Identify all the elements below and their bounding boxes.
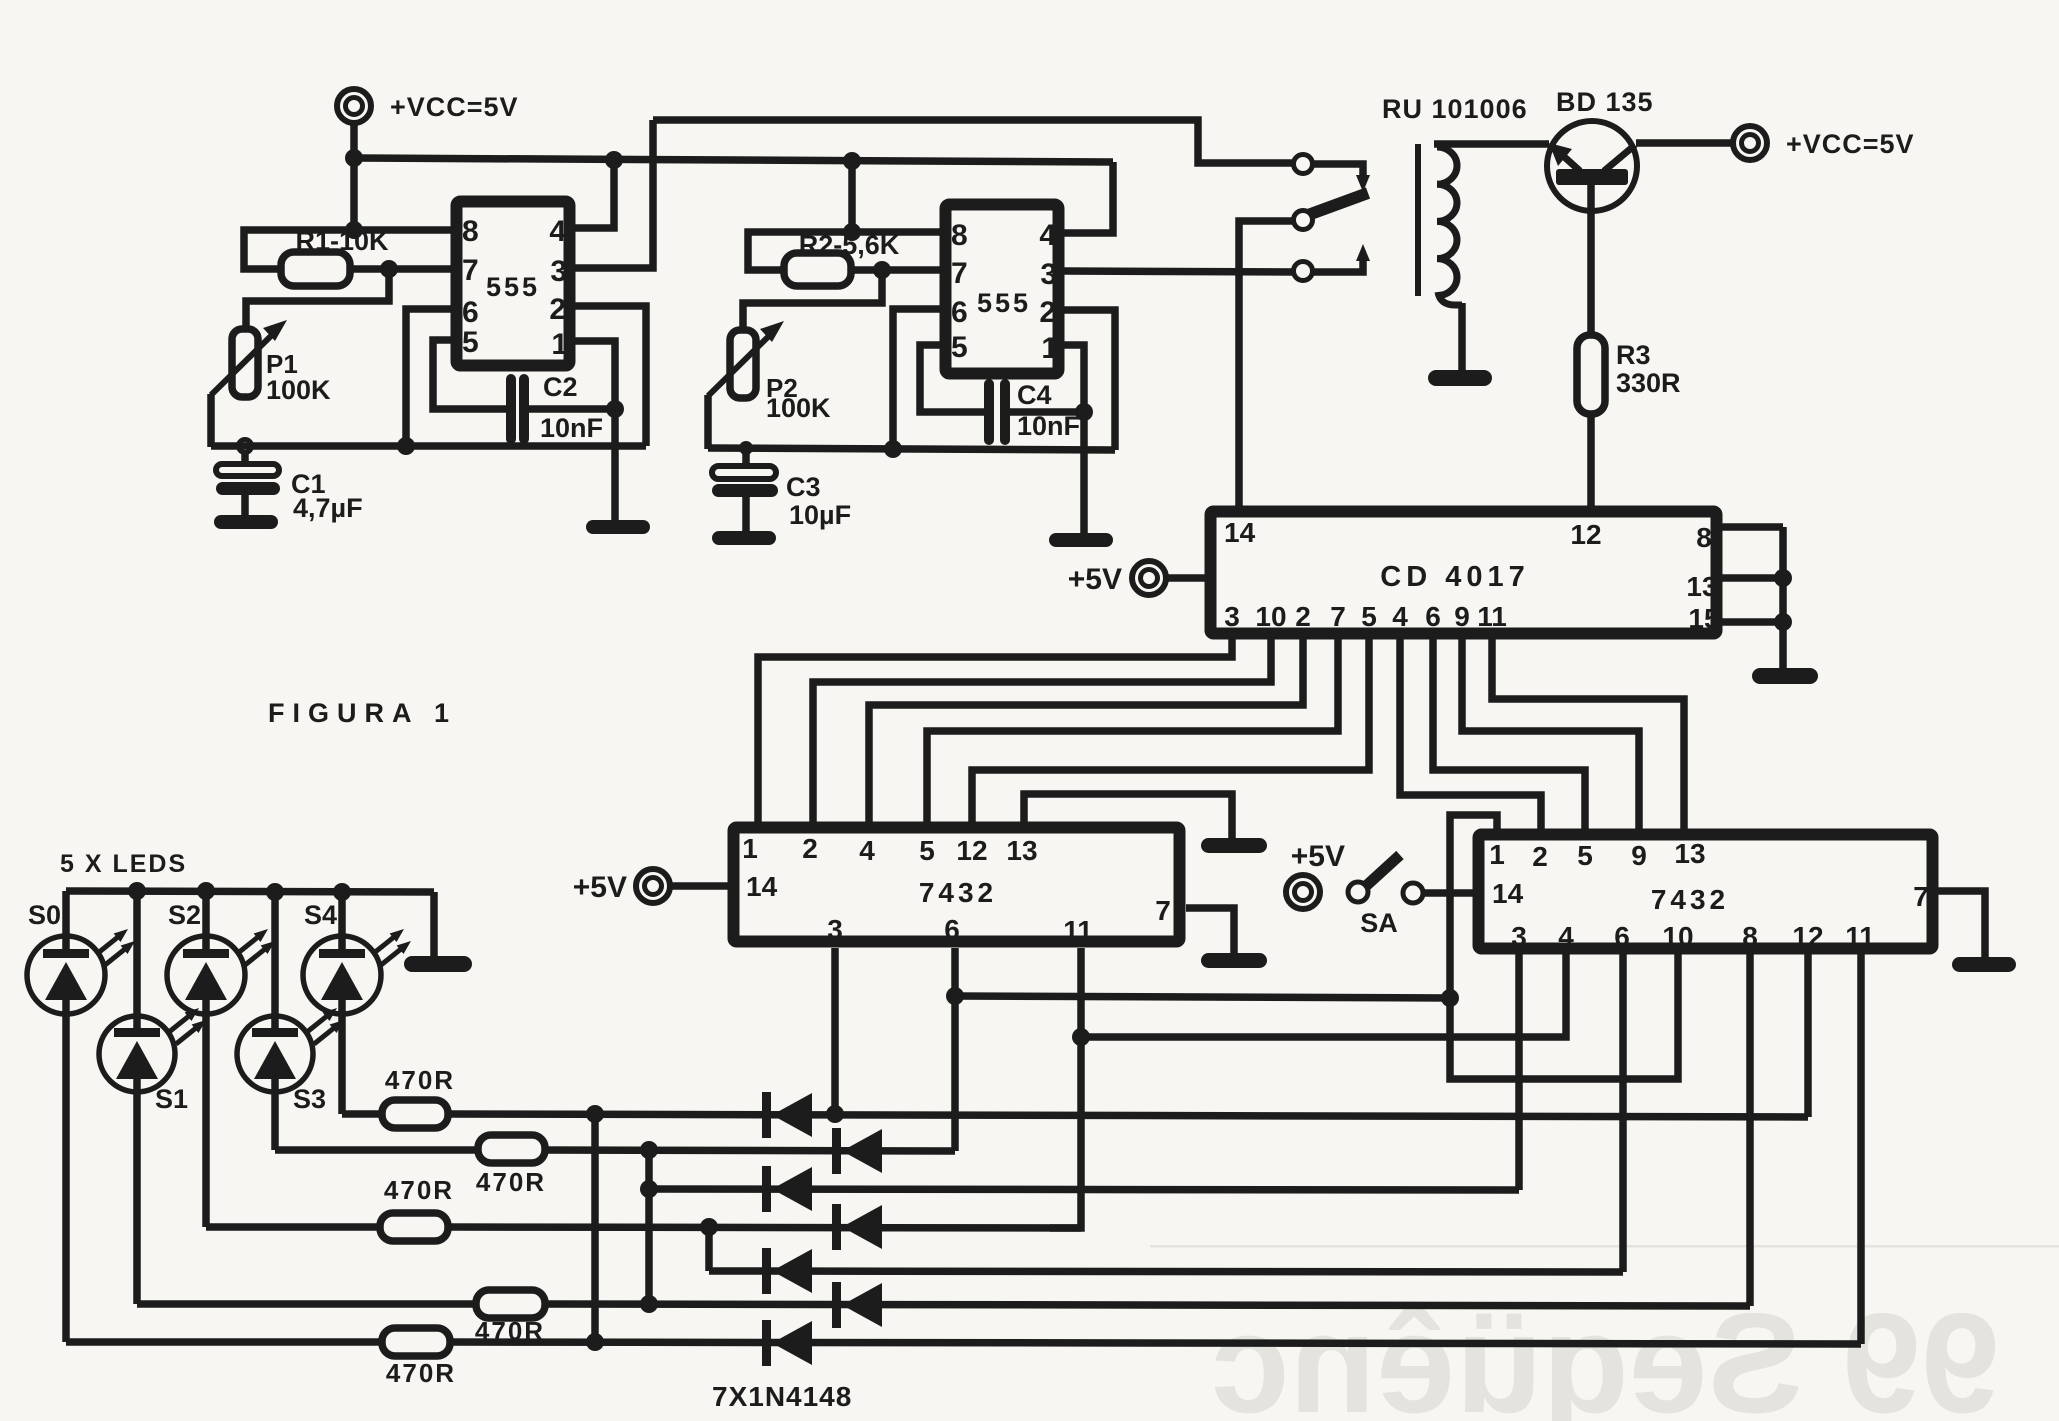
LED S4: [303, 900, 411, 1014]
svg-text:470R: 470R: [385, 1065, 455, 1095]
node: C2/pin1 junction: [606, 400, 624, 418]
wire CD4017 pin15: [1722, 618, 1783, 626]
wire S3 top: [271, 892, 279, 1030]
svg-text:10: 10: [1255, 601, 1286, 632]
wire row B: [545, 1150, 955, 1151]
node: rail to IC1 pin4: [605, 151, 623, 169]
wire 7432a pin6 down: [951, 948, 959, 1151]
svg-text:+VCC=5V: +VCC=5V: [390, 92, 519, 122]
svg-text:1: 1: [1041, 332, 1058, 365]
svg-text:555: 555: [977, 288, 1031, 318]
relay RU 101006 label: [1382, 94, 1528, 124]
wire VCC rail: [354, 158, 1113, 162]
node: P2/C3 junction: [739, 441, 753, 455]
wire LED cathode bus: [66, 891, 434, 892]
svg-text:8: 8: [1696, 522, 1712, 553]
wire row S1: [137, 1300, 476, 1308]
node: rowC/vert649: [640, 1180, 658, 1198]
wire CD4017 pin4 to 7432b pin2: [1400, 639, 1541, 830]
wire row G: [450, 1342, 1861, 1344]
svg-text:6: 6: [1614, 921, 1630, 952]
wire IC2 pin3 output: [1064, 271, 1294, 272]
wire pin5 loop: [433, 340, 506, 409]
svg-text:100K: 100K: [266, 375, 331, 405]
wire pin6 vertical: [406, 309, 451, 446]
node: IC2 pin8 junction: [843, 223, 861, 241]
wire pin8/13/15 to ground: [1779, 527, 1787, 670]
node: pin11 branch junction: [1072, 1028, 1090, 1046]
svg-text:7: 7: [1913, 881, 1929, 912]
ground (C1): [214, 515, 278, 529]
svg-text:R3: R3: [1616, 340, 1651, 370]
diode D3 1N4148: [762, 1166, 812, 1212]
svg-text:11: 11: [1477, 601, 1507, 632]
wire +5V to CD4017: [1165, 574, 1206, 582]
label 7X1N4148: [712, 1381, 852, 1412]
wire IC2 pin5 loop: [920, 345, 984, 412]
wire bus to ground: [430, 892, 438, 958]
svg-text:4: 4: [549, 215, 566, 248]
svg-text:12: 12: [1792, 921, 1823, 952]
svg-text:1: 1: [742, 833, 758, 864]
svg-text:470R: 470R: [476, 1167, 546, 1197]
svg-text:7: 7: [1330, 601, 1346, 632]
svg-text:6: 6: [462, 296, 479, 329]
diode D5 1N4148: [762, 1248, 812, 1294]
capacitor C2 10nF: [506, 372, 603, 444]
svg-text:7: 7: [1155, 895, 1171, 926]
wire S4 top: [338, 892, 346, 951]
diode D1 1N4148: [762, 1092, 812, 1138]
wire row D: [448, 1227, 1081, 1228]
wire IC2 bottom rail: [708, 448, 1115, 450]
svg-text:7X1N4148: 7X1N4148: [712, 1381, 852, 1412]
wire CD4017 pin5 to 7432a pin12: [972, 639, 1369, 823]
wire R1 to IC1 pin7: [350, 265, 451, 273]
resistor 470R (S3): [476, 1135, 546, 1197]
wire IC2 pin8: [748, 232, 940, 270]
relay switch lever: [1308, 193, 1368, 215]
resistor R1: [281, 226, 389, 286]
wire IC2 pin6 vertical: [893, 309, 940, 449]
wire base down: [1587, 185, 1595, 335]
wire S0 top: [62, 891, 70, 951]
wire IC2 pin2: [1064, 310, 1115, 450]
ground (IC1 pin1): [586, 520, 650, 534]
ground (LED bus): [404, 956, 472, 972]
wire 7432b pin7 to ground: [1938, 891, 1985, 959]
svg-text:7: 7: [462, 254, 479, 287]
capacitor C4 10nF: [984, 379, 1080, 445]
wire P1 wiper down: [207, 394, 215, 447]
svg-text:10nF: 10nF: [540, 413, 603, 443]
node: rowD/vert709: [700, 1218, 718, 1236]
svg-text:8: 8: [951, 219, 968, 252]
resistor 470R (S1): [475, 1290, 545, 1346]
wire IC2 pin1 to ground: [1064, 345, 1084, 533]
svg-text:4: 4: [1392, 601, 1408, 632]
node: pin1/tie junction: [1441, 989, 1459, 1007]
diode D7 1N4148: [762, 1320, 812, 1366]
wire R3 to CD4017 pin12: [1587, 414, 1595, 508]
svg-text:5: 5: [919, 835, 935, 866]
svg-text:S1: S1: [155, 1084, 188, 1114]
svg-text:RU 101006: RU 101006: [1382, 94, 1528, 124]
ground (7432b pin7): [1952, 957, 2016, 972]
svg-text:4: 4: [1558, 921, 1574, 952]
wire VCC1 down: [350, 122, 358, 232]
svg-text:12: 12: [1570, 519, 1601, 550]
svg-text:5: 5: [951, 331, 968, 364]
ground (C3): [712, 531, 776, 545]
node: rowA/vert595: [586, 1105, 604, 1123]
wire IC1 pin3 up: [575, 120, 653, 268]
node: pin7 junction: [380, 260, 398, 278]
LED S0: [27, 900, 135, 1014]
node: rowB/vert649: [640, 1141, 658, 1159]
relay coil RU101006: [1418, 144, 1462, 372]
wire P2 wiper down: [704, 395, 712, 449]
ground (relay coil): [1428, 370, 1492, 386]
wire S2 anode down: [202, 1000, 210, 1227]
svg-text:3: 3: [1040, 258, 1057, 291]
wire CD4017 pin7 to 7432a pin5: [927, 639, 1338, 823]
wire S4 anode down: [338, 1000, 346, 1114]
wire common contact to CD4017 pin14: [1239, 221, 1294, 508]
switch SA: [1348, 855, 1423, 938]
svg-text:R1-10K: R1-10K: [295, 226, 389, 256]
svg-text:CD 4017: CD 4017: [1380, 561, 1529, 593]
wire 7432b pin8 down: [1746, 954, 1754, 1306]
node: bus S2: [197, 882, 215, 900]
relay contact common (middle): [1294, 211, 1313, 230]
diode D6 1N4148: [832, 1282, 882, 1328]
potentiometer P2 100K: [708, 321, 831, 423]
svg-text:330R: 330R: [1616, 368, 1681, 398]
transistor Q1 BD135 label: [1556, 87, 1654, 117]
node: C4/pin1 junction: [1075, 403, 1093, 421]
resistor R2: [784, 230, 900, 286]
svg-text:10: 10: [1662, 921, 1693, 952]
svg-text:2: 2: [802, 833, 818, 864]
relay contact NC (top): [1294, 155, 1313, 174]
node: pin6 branch junction: [946, 987, 964, 1005]
svg-text:BD 135: BD 135: [1556, 87, 1654, 117]
svg-text:13: 13: [1674, 838, 1705, 869]
svg-text:FIGURA 1: FIGURA 1: [268, 698, 457, 728]
wire IC1 output top run: [653, 120, 1294, 163]
svg-text:3: 3: [1511, 921, 1527, 952]
wire S3 anode down: [271, 1079, 279, 1150]
node: pin15 junction: [1774, 613, 1792, 631]
label 5 X LEDS: [60, 850, 187, 878]
svg-text:1: 1: [1489, 839, 1505, 870]
svg-text:SA: SA: [1360, 908, 1398, 938]
wire collector to VCC: [1636, 139, 1732, 147]
node: bus S4: [333, 883, 351, 901]
power terminal +5V (7432a): [573, 869, 670, 904]
svg-text:13: 13: [1686, 571, 1717, 602]
power terminal +VCC=5V (left): [337, 89, 519, 123]
svg-text:10µF: 10µF: [789, 500, 851, 530]
node: pin13 junction: [1774, 569, 1792, 587]
svg-text:470R: 470R: [386, 1358, 456, 1388]
wire row S4: [342, 1110, 382, 1118]
svg-text:3: 3: [827, 914, 843, 945]
svg-text:8: 8: [462, 215, 479, 248]
capacitor C3 10uF: [712, 452, 851, 533]
wire CD4017 pin8: [1722, 523, 1783, 531]
svg-text:S4: S4: [304, 900, 337, 930]
wire C4 right: [1010, 408, 1084, 416]
svg-text:2: 2: [1532, 841, 1548, 872]
svg-text:6: 6: [951, 296, 968, 329]
power terminal +VCC=5V (right): [1733, 126, 1915, 160]
node: VCC rail junction: [345, 149, 363, 167]
svg-text:11: 11: [1845, 921, 1875, 952]
wire contact stub top-right: [1312, 164, 1370, 192]
wire pin7 to P2 top: [743, 270, 882, 330]
wire vert S2 tie: [705, 1227, 713, 1271]
svg-text:5: 5: [462, 326, 479, 359]
power terminal +5V (CD4017): [1068, 561, 1166, 596]
svg-text:C2: C2: [543, 372, 578, 402]
wire row A: [448, 1114, 1808, 1117]
wire S0 anode down: [62, 1000, 70, 1342]
wire 7432a pin7 to ground: [1186, 908, 1234, 955]
wire CD4017 pin10 to 7432a pin2: [813, 639, 1271, 823]
wire 7432b pin6 down: [1619, 954, 1627, 1272]
svg-text:5: 5: [1577, 840, 1593, 871]
wire 7432b pin12 down: [1804, 954, 1812, 1117]
IC U5 7432 body: [1479, 835, 1933, 953]
node: rail to IC2 pin8 drop: [843, 152, 861, 170]
timer IC U1 555: [457, 202, 570, 366]
svg-text:+5V: +5V: [1068, 563, 1122, 596]
wire CD4017 pin11 to 7432b pin13: [1492, 639, 1684, 830]
wire vert S1-S3 tie: [645, 1150, 653, 1304]
svg-text:14: 14: [746, 871, 778, 902]
svg-text:12: 12: [956, 835, 987, 866]
wire tie 7432a.11 to 7432b.4: [1081, 954, 1566, 1037]
node: P1/C1 junction: [239, 440, 252, 453]
wire pin7 to P1 top: [246, 269, 389, 330]
wire CD4017 pin6 to 7432b pin5: [1433, 639, 1585, 830]
ground (IC2 pin1): [1049, 533, 1113, 547]
wire IC1 pin4: [575, 160, 614, 228]
wire S1 anode down: [133, 1079, 141, 1304]
svg-text:470R: 470R: [384, 1175, 454, 1205]
node: IC2 pin7 junction: [873, 261, 891, 279]
wire row E: [709, 1271, 1623, 1272]
svg-text:3: 3: [550, 255, 567, 288]
svg-text:C3: C3: [786, 472, 821, 502]
wire CD4017 pin2 to 7432a pin4: [869, 639, 1303, 823]
svg-text:14: 14: [1492, 878, 1524, 909]
diode D2 1N4148: [832, 1128, 882, 1174]
relay contact NO (bottom): [1294, 262, 1313, 281]
wire contact stub bottom-right: [1312, 244, 1370, 272]
svg-text:C4: C4: [1017, 380, 1052, 410]
wire row F: [545, 1304, 1750, 1306]
node: IC2 pin6 rail junction: [884, 440, 902, 458]
ground (7432a pin7): [1201, 953, 1267, 968]
wire IC1 pin1 to ground: [575, 341, 615, 520]
wire row S3: [275, 1146, 478, 1154]
resistor 470R (S2): [380, 1175, 454, 1241]
timer IC U2 555: [946, 205, 1059, 374]
wire 7432a pin13 to ground: [1024, 794, 1232, 840]
resistor 470R (S4): [382, 1065, 455, 1128]
LED S2: [167, 900, 275, 1014]
ground (CD4017 reset): [1752, 668, 1818, 684]
svg-text:+5V: +5V: [573, 871, 627, 904]
potentiometer P1 100K: [211, 320, 331, 405]
IC U3 CD4017 body: [1211, 512, 1720, 635]
svg-text:5 X LEDS: 5 X LEDS: [60, 850, 187, 878]
svg-text:8: 8: [1742, 921, 1758, 952]
wire 7432b pin3 down: [1515, 954, 1523, 1190]
svg-text:6: 6: [944, 914, 960, 945]
wire vert S0-S4 tie: [591, 1114, 599, 1342]
svg-text:9: 9: [1631, 840, 1647, 871]
LED S1: [99, 1008, 206, 1114]
wire 7432a pin11 down: [1050, 948, 1081, 1228]
node: bus S3: [266, 883, 284, 901]
wire row S2: [206, 1223, 380, 1231]
svg-text:7: 7: [951, 257, 968, 290]
svg-text:S3: S3: [293, 1084, 326, 1114]
svg-text:R2-5,6K: R2-5,6K: [799, 230, 900, 260]
wire IC2 pin4: [1064, 162, 1113, 233]
wire +5V to 7432a pin14: [669, 882, 733, 890]
wire IC1 pin8: [244, 230, 451, 269]
resistor 470R (S0): [382, 1328, 456, 1388]
svg-text:4: 4: [859, 835, 875, 866]
svg-text:11: 11: [1063, 915, 1093, 946]
wire IC1 pin2: [575, 306, 646, 446]
power terminal +5V (SA): [1286, 840, 1345, 909]
ground (7432a pin13): [1201, 838, 1267, 853]
transistor Q1 BD135: [1547, 121, 1637, 211]
svg-text:15: 15: [1688, 603, 1719, 634]
wire C2 right: [529, 405, 615, 413]
wire row S0: [66, 1338, 382, 1346]
svg-text:4: 4: [1039, 219, 1056, 252]
wire row C: [649, 1189, 1519, 1190]
svg-text:3: 3: [1224, 601, 1240, 632]
svg-text:100K: 100K: [766, 393, 831, 423]
wire tie 7432a.6 to 7432b.1: [955, 996, 1450, 998]
svg-text:9: 9: [1454, 601, 1470, 632]
svg-text:2: 2: [1039, 296, 1056, 329]
wire S2 top: [202, 891, 210, 951]
svg-text:14: 14: [1224, 517, 1256, 548]
svg-text:5: 5: [1361, 601, 1377, 632]
wire 7432b pin11 down: [1857, 954, 1865, 1344]
node: bus S1: [128, 882, 146, 900]
svg-text:2: 2: [549, 293, 566, 326]
svg-text:7432: 7432: [919, 877, 997, 908]
node: pin6 rail junction: [397, 437, 415, 455]
wire IC1 bottom rail: [211, 442, 646, 450]
wire SA to 7432b pin14: [1423, 889, 1478, 897]
IC U4 7432 body: [734, 828, 1180, 947]
wire 7432a pin3 down: [831, 948, 839, 1114]
capacitor C1 4,7uF: [216, 452, 363, 523]
svg-text:1: 1: [551, 328, 568, 361]
wire CD4017 pin9 to 7432b pin9: [1462, 639, 1639, 830]
svg-text:2: 2: [1295, 601, 1311, 632]
wire coil top to transistor: [1434, 140, 1549, 148]
resistor R3 330R: [1577, 335, 1681, 414]
svg-text:555: 555: [486, 272, 540, 302]
wire rail drop to IC2 pin8: [848, 161, 856, 232]
LED S3: [237, 1008, 344, 1114]
svg-text:S2: S2: [168, 900, 201, 930]
node: IC1 pin8 junction: [345, 221, 363, 239]
svg-text:+5V: +5V: [1291, 840, 1345, 873]
svg-text:13: 13: [1006, 835, 1037, 866]
svg-text:6: 6: [1425, 601, 1441, 632]
svg-text:4,7µF: 4,7µF: [293, 493, 363, 523]
svg-text:S0: S0: [28, 900, 61, 930]
svg-text:+VCC=5V: +VCC=5V: [1786, 129, 1915, 159]
svg-text:7432: 7432: [1651, 884, 1729, 915]
wire S1 top: [133, 891, 141, 1030]
wire CD4017 pin3 to 7432a pin1: [758, 639, 1232, 823]
node: rowG/vert595: [586, 1333, 604, 1351]
node: pin3/rowA junction: [826, 1105, 844, 1123]
diode D4 1N4148: [832, 1204, 882, 1250]
wire CD4017 pin13: [1722, 574, 1783, 582]
wire 7432b pin1 route: [1450, 815, 1678, 1079]
label FIGURA 1: [268, 698, 457, 728]
wire R2 to IC2 pin7: [851, 266, 940, 274]
node: rowF/vert649: [640, 1295, 658, 1313]
